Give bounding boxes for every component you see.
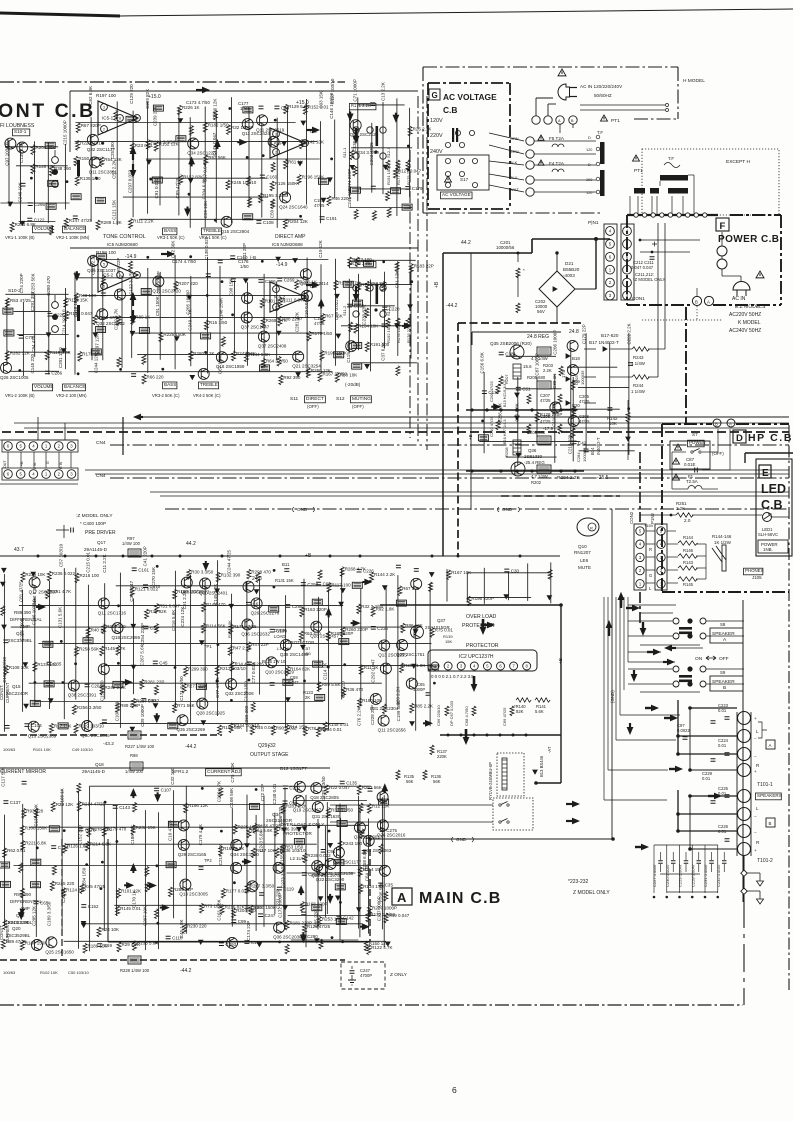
con2 wires xyxy=(646,530,655,532)
junction xyxy=(116,840,119,843)
svg-text:C81 47/25: C81 47/25 xyxy=(19,581,24,602)
wire xyxy=(115,806,117,916)
svg-text:C270 15K: C270 15K xyxy=(151,567,156,587)
svg-text:R198 100: R198 100 xyxy=(96,250,116,255)
svg-text:C222 2.2K: C222 2.2K xyxy=(627,323,632,344)
capacitor C123 xyxy=(51,846,56,849)
wire xyxy=(35,812,37,937)
diode D36 xyxy=(504,595,508,599)
diode D8 xyxy=(386,942,390,946)
svg-text:R145 4.7K: R145 4.7K xyxy=(104,646,125,651)
resistor R271 xyxy=(145,867,149,877)
svg-text:R144-146: R144-146 xyxy=(712,534,732,539)
svg-text:C146 150K: C146 150K xyxy=(218,298,223,321)
signal arrow xyxy=(384,790,386,793)
svg-text:5: 5 xyxy=(275,287,277,291)
signal arrow xyxy=(328,614,330,617)
svg-text:S11-1: S11-1 xyxy=(342,147,347,158)
transistor Q10 xyxy=(82,721,93,732)
signal arrow xyxy=(156,713,158,716)
resistor R205 xyxy=(537,381,551,389)
resistor R13 xyxy=(152,177,162,183)
svg-text:ON: ON xyxy=(695,656,703,662)
resistor R94 xyxy=(83,638,93,644)
svg-text:C107 103/10: C107 103/10 xyxy=(2,656,7,682)
svg-text:C45: C45 xyxy=(159,660,168,665)
PT1 warning 2 xyxy=(633,155,640,161)
capacitor C99 xyxy=(231,920,236,923)
svg-text:+: + xyxy=(754,848,757,853)
diode D24 xyxy=(293,259,297,263)
svg-text:C90 15K: C90 15K xyxy=(228,278,233,296)
main right dash-dot border upper xyxy=(639,452,641,522)
resistor R164 xyxy=(286,666,290,676)
svg-text:B12 1SS177: B12 1SS177 xyxy=(280,766,307,772)
svg-text:-25.5: -25.5 xyxy=(597,475,609,481)
transistor Q18 xyxy=(216,352,227,363)
svg-text:TREBLE: TREBLE xyxy=(203,228,221,233)
junction xyxy=(201,827,204,830)
transistor Q11 xyxy=(378,715,389,726)
capacitor C287 xyxy=(584,449,589,452)
svg-text:24.8: 24.8 xyxy=(252,576,262,582)
svg-text:C39 0.022: C39 0.022 xyxy=(334,299,339,320)
resistor R48 xyxy=(30,700,40,706)
svg-text:1NB.: 1NB. xyxy=(763,547,773,552)
wire xyxy=(467,572,550,574)
connector CON2 column xyxy=(634,524,646,590)
resistor R75 xyxy=(430,628,434,638)
junction xyxy=(206,294,209,297)
wire xyxy=(75,141,318,143)
VOLUME label row2 xyxy=(33,384,53,391)
transistor Q10 xyxy=(153,276,164,287)
svg-text:Q10: Q10 xyxy=(578,544,587,549)
junction xyxy=(204,351,207,354)
transistor Q31 xyxy=(370,693,381,704)
connector CN4 pin 5 xyxy=(16,470,25,479)
wire xyxy=(357,188,412,190)
AC IN plug power xyxy=(733,282,750,290)
resistor R44 xyxy=(391,188,401,194)
svg-text:R29 12K: R29 12K xyxy=(56,802,74,807)
junction xyxy=(18,369,21,372)
wire xyxy=(64,144,66,209)
capacitor C69 xyxy=(97,944,102,947)
svg-text:T101-2: T101-2 xyxy=(757,858,773,864)
svg-text:R176 220: R176 220 xyxy=(406,325,411,343)
svg-text:C284 1/50: C284 1/50 xyxy=(82,867,87,888)
svg-text:R50 10K: R50 10K xyxy=(340,373,358,378)
resistor R66 xyxy=(142,374,146,384)
resistor R48 xyxy=(396,600,406,606)
svg-text:B11: B11 xyxy=(282,562,290,567)
transistor Q32 xyxy=(17,142,28,153)
svg-text:VR2-2 100 (MN): VR2-2 100 (MN) xyxy=(56,393,87,398)
capacitor C87 xyxy=(695,468,698,473)
svg-text:R152 12K: R152 12K xyxy=(159,142,179,147)
resistor R83 xyxy=(97,254,107,260)
svg-text:6: 6 xyxy=(103,284,105,288)
svg-text:C215 1000P: C215 1000P xyxy=(63,120,68,145)
svg-text:R80 1K: R80 1K xyxy=(135,315,150,320)
resistor R206 xyxy=(336,919,346,925)
svg-text:R89 390: R89 390 xyxy=(14,610,32,615)
capacitor C20 xyxy=(370,103,375,106)
svg-text:8: 8 xyxy=(119,273,121,277)
svg-text:F5 T2A: F5 T2A xyxy=(549,136,565,141)
resistor R114 xyxy=(201,623,205,633)
signal arrow xyxy=(402,325,405,327)
junction xyxy=(273,569,276,572)
resistor R149 xyxy=(315,695,325,701)
svg-text:PRE DRIVER: PRE DRIVER xyxy=(85,530,116,536)
svg-text:C77 47/25: C77 47/25 xyxy=(215,677,220,698)
capacitor C135 xyxy=(340,781,345,784)
svg-text:R226 1K: R226 1K xyxy=(182,105,200,110)
resistor R88 xyxy=(278,316,282,326)
volume switch bar ch1 xyxy=(77,160,80,176)
wire xyxy=(206,257,208,373)
resistor R226 xyxy=(178,105,182,115)
resistor R212 xyxy=(91,349,101,355)
resistor R11 xyxy=(359,665,363,675)
svg-text:C41 12K: C41 12K xyxy=(394,271,399,289)
capacitor C41 xyxy=(628,363,633,366)
SPEAKER A label xyxy=(710,628,743,643)
arrow d sp xyxy=(629,723,631,728)
AC top connector row xyxy=(532,116,540,124)
svg-text:1: 1 xyxy=(304,141,306,145)
svg-text:(-20dB): (-20dB) xyxy=(345,382,361,387)
svg-text:5.6K: 5.6K xyxy=(535,709,544,714)
resistor R181 xyxy=(285,920,289,930)
zigzag caps ps2 xyxy=(496,420,500,430)
front box wire top xyxy=(70,90,418,92)
resistor R204 xyxy=(283,219,287,229)
svg-text:220K: 220K xyxy=(437,754,447,759)
wire xyxy=(291,939,359,941)
transistor Q26 xyxy=(1,362,12,373)
resistor R144 xyxy=(370,572,374,582)
wire xyxy=(38,643,431,645)
svg-text:C74 220P: C74 220P xyxy=(19,273,24,293)
svg-text:B17 1N4002-T: B17 1N4002-T xyxy=(589,340,619,345)
svg-text:Q37: Q37 xyxy=(437,618,446,623)
svg-text:R125 1W 10: R125 1W 10 xyxy=(262,659,286,664)
svg-text:C243 5.6K: C243 5.6K xyxy=(258,831,263,852)
resistor R47 xyxy=(247,642,251,652)
resistor R230 xyxy=(429,582,433,592)
transistor Q22 xyxy=(316,864,327,875)
zigzag caps xyxy=(445,706,449,716)
AC section outer dash-dot box xyxy=(423,66,678,68)
arrow d s8 xyxy=(642,622,644,629)
svg-text:4.7 1/4W: 4.7 1/4W xyxy=(531,474,548,479)
svg-text:B18: B18 xyxy=(572,356,580,361)
svg-text:R202: R202 xyxy=(531,480,542,485)
speaker feed verticals xyxy=(603,597,605,800)
wire xyxy=(410,266,412,358)
svg-text:R30 3.3/50: R30 3.3/50 xyxy=(191,570,214,575)
resistor R286 xyxy=(356,257,360,267)
svg-text:C230 82K: C230 82K xyxy=(361,305,366,325)
svg-text:PT1: PT1 xyxy=(611,118,620,124)
resistor R208 box xyxy=(513,440,521,455)
svg-text:R167 10K: R167 10K xyxy=(451,570,471,575)
transistor Q10 xyxy=(266,657,277,668)
svg-text:1K 1/2W: 1K 1/2W xyxy=(714,540,732,545)
diode D11 xyxy=(24,704,28,708)
wire xyxy=(357,97,359,201)
wire xyxy=(288,915,376,917)
svg-text:C227 0.0047: C227 0.0047 xyxy=(652,863,657,887)
capacitor C247 xyxy=(350,971,355,974)
wire xyxy=(19,150,21,224)
capacitor C247 xyxy=(258,914,263,917)
svg-text:HP C.B: HP C.B xyxy=(748,432,793,444)
svg-text:C280 470: C280 470 xyxy=(46,276,51,296)
junction xyxy=(63,829,66,832)
resistor R182 xyxy=(203,122,207,132)
GND vertical line xyxy=(611,509,613,839)
svg-text:Q26 2SC2276: Q26 2SC2276 xyxy=(251,610,280,615)
svg-text:E.Z MODELS: E.Z MODELS xyxy=(735,304,766,310)
diode D11 xyxy=(229,604,233,608)
capacitor C107 xyxy=(154,788,159,791)
signal arrow xyxy=(147,885,150,887)
svg-text:B16 HZ7.1/4.3: B16 HZ7.1/4.3 xyxy=(503,420,507,444)
wire xyxy=(579,450,635,452)
svg-text:R92 1.8K: R92 1.8K xyxy=(376,607,395,612)
wire xyxy=(318,597,320,691)
svg-text:C37 6.8K: C37 6.8K xyxy=(381,342,386,361)
svg-text:R180 150K: R180 150K xyxy=(25,941,48,946)
svg-text:LE6: LE6 xyxy=(580,558,589,563)
front ch2 box wire xyxy=(70,247,418,249)
wire xyxy=(554,374,556,463)
junction xyxy=(410,280,413,283)
resistor R236 xyxy=(274,826,278,836)
signal arrow xyxy=(216,146,218,149)
transistor Q11 xyxy=(98,598,109,609)
svg-text:R125 47/25: R125 47/25 xyxy=(307,924,331,929)
wire xyxy=(6,300,8,365)
wire xyxy=(16,165,68,167)
svg-text:C119 1000P: C119 1000P xyxy=(552,402,557,427)
svg-text:CURRENT ADJ: CURRENT ADJ xyxy=(207,769,241,775)
resistor R282 xyxy=(5,351,9,361)
resistor R250 xyxy=(49,826,59,832)
svg-text:B: B xyxy=(715,422,718,427)
wire xyxy=(146,158,320,160)
connector CN4 pin 4 xyxy=(29,470,38,479)
svg-text:RY1VB-245MBU-5P: RY1VB-245MBU-5P xyxy=(488,762,493,800)
wire xyxy=(90,785,371,787)
capacitor C170 xyxy=(143,585,148,588)
thick wire y783 xyxy=(536,782,561,784)
wire xyxy=(358,274,360,350)
svg-text:47/25: 47/25 xyxy=(314,321,325,326)
HP component box xyxy=(670,441,710,469)
resistor R140 xyxy=(516,698,531,702)
warning hp3 xyxy=(673,474,680,480)
resistor R258 xyxy=(75,647,79,657)
capacitor C130 xyxy=(482,391,487,394)
capacitor C252 xyxy=(283,786,288,789)
resistor R193 xyxy=(213,110,217,120)
svg-text:R114 56K: R114 56K xyxy=(206,623,226,628)
transformer 2 secondary bars xyxy=(634,188,645,194)
resistor R286 xyxy=(295,280,299,290)
wire xyxy=(585,333,587,449)
TREBLE label row1 xyxy=(202,228,222,235)
resistor R134 xyxy=(359,884,363,894)
diode B13 xyxy=(533,770,537,774)
wire xyxy=(105,664,433,666)
resistor R244 xyxy=(632,375,649,379)
resistor R91 xyxy=(31,882,41,888)
svg-text:C30: C30 xyxy=(511,568,520,573)
svg-text:47/25: 47/25 xyxy=(579,419,590,424)
capacitor C232 xyxy=(231,279,236,282)
svg-text:Q17: Q17 xyxy=(97,540,106,545)
transistor Q31 xyxy=(5,138,16,149)
junction xyxy=(330,158,333,161)
diode D36 xyxy=(130,727,134,731)
diode D19 xyxy=(131,624,135,628)
R171 2.2K label xyxy=(350,103,376,109)
diode D29 xyxy=(1,582,5,586)
junction xyxy=(339,901,342,904)
-44.2 dashed rail ch1 xyxy=(0,734,222,736)
resistor R124 xyxy=(71,194,81,200)
diode D18 xyxy=(328,178,332,182)
vertical wire x471 xyxy=(470,253,472,510)
resistor R47 xyxy=(337,821,347,827)
wire xyxy=(263,795,265,927)
resistor R143 xyxy=(202,602,206,612)
bus junction circles xyxy=(634,213,638,217)
B box terminal xyxy=(766,818,775,827)
diode D10 xyxy=(81,921,85,925)
fuse F1 xyxy=(688,486,702,489)
svg-text:DIRECT AMP: DIRECT AMP xyxy=(275,234,306,240)
junction xyxy=(30,177,33,180)
svg-text:L2 1UH: L2 1UH xyxy=(290,856,305,861)
wire xyxy=(483,372,485,453)
svg-text:POWER C.B: POWER C.B xyxy=(718,234,779,245)
svg-text:J105: J105 xyxy=(752,575,762,580)
resistor R127 xyxy=(393,168,397,178)
svg-text:VR4-1 50K (C): VR4-1 50K (C) xyxy=(199,235,227,240)
bus wire xyxy=(14,422,789,424)
svg-text:R24 10K: R24 10K xyxy=(102,927,120,932)
transistor Q13 xyxy=(180,879,191,890)
AC wires xyxy=(489,133,524,141)
terminal right wires xyxy=(743,856,745,900)
resistor R243 xyxy=(632,347,649,351)
open diamond junction xyxy=(741,870,747,876)
arrow r left1 xyxy=(481,624,488,626)
capacitor C35 xyxy=(143,626,148,629)
svg-text:15K: 15K xyxy=(445,639,452,644)
wire xyxy=(628,333,630,455)
svg-text:+B: +B xyxy=(20,461,24,466)
wire xyxy=(517,377,519,465)
svg-text:C10 47/25: C10 47/25 xyxy=(168,820,173,841)
svg-text:29A1145-D: 29A1145-D xyxy=(84,547,108,552)
svg-text:AC240V 50HZ: AC240V 50HZ xyxy=(729,328,761,334)
capacitor C152 xyxy=(347,304,352,307)
wire xyxy=(335,259,337,366)
wire xyxy=(34,293,36,357)
diode D23 xyxy=(283,906,287,910)
svg-text:C186 12K: C186 12K xyxy=(212,99,217,119)
page right dash-dot border xyxy=(788,425,790,990)
resistor R141 xyxy=(535,698,550,702)
BALANCE label row2 xyxy=(63,384,86,391)
transistor Q17 xyxy=(242,293,253,304)
svg-text:C284: C284 xyxy=(576,452,581,462)
resistor R277 xyxy=(182,683,186,693)
junction xyxy=(228,107,231,110)
wire xyxy=(396,98,398,216)
resistor R145 xyxy=(323,722,327,732)
bus wire xyxy=(95,473,789,475)
svg-text:−: − xyxy=(754,814,757,819)
B A circles power xyxy=(692,296,701,305)
resistor R42 xyxy=(351,187,361,193)
svg-text:C88 1K: C88 1K xyxy=(552,374,557,389)
wire xyxy=(353,259,415,261)
svg-text:C143: C143 xyxy=(119,805,130,810)
signal arrow xyxy=(160,907,163,909)
svg-text:CONST.: CONST. xyxy=(0,925,4,940)
bridge wires xyxy=(556,253,558,271)
resistor R101 xyxy=(117,888,121,898)
resistor R242 xyxy=(100,685,104,695)
ground C247 xyxy=(348,980,356,985)
resistor R136 xyxy=(96,327,106,333)
svg-text:C292 0.047: C292 0.047 xyxy=(371,659,376,683)
resistor R135 xyxy=(396,770,400,780)
arrow r sp1 xyxy=(645,707,652,709)
svg-text:CURRENT MIRROR: CURRENT MIRROR xyxy=(0,769,46,775)
capacitor C191 xyxy=(320,217,325,220)
resistor R146 xyxy=(678,554,698,558)
wire xyxy=(370,280,372,372)
svg-text:-44.2: -44.2 xyxy=(180,968,192,974)
resistor R195 xyxy=(320,351,324,361)
wire xyxy=(536,377,538,443)
svg-text:R146: R146 xyxy=(683,548,694,553)
transistor Q36 xyxy=(274,922,285,933)
wire xyxy=(348,279,350,353)
svg-text:C236: C236 xyxy=(377,626,388,631)
wire xyxy=(359,284,412,286)
svg-text:C228 0.0047: C228 0.0047 xyxy=(690,863,695,887)
svg-text:120V: 120V xyxy=(430,118,443,124)
S10-1 switch contacts xyxy=(52,157,59,164)
svg-text:C281 12K: C281 12K xyxy=(294,312,299,332)
wire xyxy=(328,590,330,730)
LED box outer corner xyxy=(745,452,793,454)
diode D8 xyxy=(315,939,319,943)
svg-text:240V: 240V xyxy=(430,149,443,155)
signal arrow xyxy=(132,870,134,873)
svg-text:C273 3.3/50: C273 3.3/50 xyxy=(280,863,285,888)
